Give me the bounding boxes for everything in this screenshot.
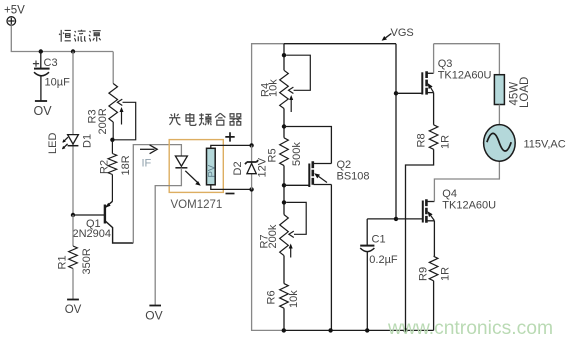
resistor R3 200R potentiometer <box>86 84 135 140</box>
svg-text:R8: R8 <box>415 133 427 147</box>
node +5V terminal <box>4 5 25 26</box>
resistor R8 1R <box>415 125 451 149</box>
wire Q1 collector to IF <box>133 145 181 243</box>
svg-text:TK12A60U: TK12A60U <box>438 70 492 82</box>
node plus label <box>225 132 234 141</box>
label constant current source (Chinese) <box>59 30 101 42</box>
svg-text:2N2904: 2N2904 <box>73 228 112 240</box>
ground OV (R1) <box>65 300 82 317</box>
svg-text:R5: R5 <box>267 148 279 162</box>
node junction D1 tap <box>71 49 75 53</box>
diode D1 LED <box>47 133 94 154</box>
svg-text:C1: C1 <box>372 234 386 246</box>
svg-text:VOM1271: VOM1271 <box>171 199 223 211</box>
node R2/R3 junction <box>110 138 114 142</box>
node Q1 base junction <box>71 213 75 217</box>
svg-text:R9: R9 <box>417 267 429 281</box>
svg-text:BS108: BS108 <box>337 171 370 183</box>
svg-text:200R: 200R <box>97 108 109 134</box>
resistor R2 18R <box>98 140 132 201</box>
svg-text:350R: 350R <box>81 248 93 274</box>
wire D1 branch <box>72 52 74 216</box>
svg-text:LOAD: LOAD <box>519 77 531 108</box>
node PV- junction <box>249 187 253 191</box>
svg-text:PV: PV <box>206 164 217 177</box>
svg-text:0.2µF: 0.2µF <box>369 254 398 266</box>
optocoupler U1 VOM1271 box <box>169 140 223 193</box>
wire left rail lower <box>252 189 284 330</box>
AC source 115V <box>484 125 566 162</box>
wire divider chain leads <box>283 44 285 331</box>
svg-text:1R: 1R <box>440 135 452 149</box>
wire R8 to bottom rail <box>406 149 434 330</box>
svg-text:Q3: Q3 <box>438 58 453 70</box>
watermark www.cntronics.com <box>387 318 553 339</box>
node rail C1 junction <box>365 328 369 332</box>
svg-text:Q4: Q4 <box>442 188 457 200</box>
svg-text:18R: 18R <box>120 155 132 175</box>
capacitor C1 0.2uF <box>360 219 398 331</box>
svg-text:+5V: +5V <box>4 5 25 17</box>
svg-text:OV: OV <box>65 304 82 316</box>
wire R4-R5 node to Q2 drain <box>284 127 331 164</box>
svg-text:10µF: 10µF <box>45 76 71 88</box>
wire Q3 drain up <box>433 44 435 74</box>
wire left rail upper <box>252 44 284 146</box>
node R5/gate junction <box>282 183 286 187</box>
node Q3 gate junction <box>394 91 398 95</box>
resistor R7 200k potentiometer <box>259 202 307 257</box>
svg-text:www.cntronics.com: www.cntronics.com <box>387 318 553 339</box>
resistor R6 10k <box>266 284 300 309</box>
resistor R5 500k <box>267 138 303 166</box>
wire PV positive lead <box>211 145 252 148</box>
node PV+ junction <box>249 143 253 147</box>
svg-text:1R: 1R <box>440 267 452 281</box>
capacitor C3 <box>33 52 70 102</box>
diode opto LED emitter <box>175 156 187 168</box>
svg-text:Q2: Q2 <box>337 159 352 171</box>
wire Q1 base <box>73 214 104 216</box>
transistor Q4 TK12A60U <box>396 188 496 223</box>
node junction C3 tap <box>39 49 43 53</box>
node R7 wiper junction <box>282 200 286 204</box>
svg-text:OV: OV <box>145 309 162 323</box>
svg-text:D2: D2 <box>232 161 244 175</box>
resistor R4 10k potentiometer <box>259 55 310 112</box>
load 45W <box>494 75 531 108</box>
svg-text:C3: C3 <box>44 57 58 69</box>
svg-text:VGS: VGS <box>391 27 414 39</box>
svg-text:500k: 500k <box>291 142 303 166</box>
svg-text:200k: 200k <box>267 224 279 248</box>
node VGS label arrow <box>382 27 414 41</box>
svg-text:LED: LED <box>47 133 59 154</box>
wire bottom rail black <box>284 329 434 331</box>
node rail R8 junction <box>403 328 407 332</box>
ground OV (C3) <box>34 101 53 118</box>
svg-text:OV: OV <box>34 104 53 118</box>
transistor Q1 2N2904 <box>73 201 134 243</box>
node rail R6 junction <box>282 328 286 332</box>
transistor Q3 TK12A60U <box>396 58 492 95</box>
wire Q4 drain up <box>434 161 499 201</box>
wire +5V rail <box>11 25 113 51</box>
wire VGS line <box>395 44 397 219</box>
svg-text:IF: IF <box>142 158 152 170</box>
wire Q3 source to R8 <box>433 93 435 125</box>
wire R3 top lead <box>112 52 114 84</box>
resistor R9 1R <box>417 256 451 330</box>
node R4/R5 junction <box>282 124 286 128</box>
diode D2 zener 12V <box>232 145 268 189</box>
svg-text:D1: D1 <box>81 134 93 148</box>
svg-text:R2: R2 <box>98 160 110 174</box>
label VOM1271 <box>171 199 223 211</box>
resistor R1 350R <box>57 215 94 300</box>
node Q4 gate / C1 junction <box>394 217 398 221</box>
wire load loop top <box>434 44 500 75</box>
wire PV negative lead <box>211 185 252 190</box>
svg-text:TK12A60U: TK12A60U <box>442 199 496 211</box>
node rail Q2 junction <box>328 328 332 332</box>
ground OV (opto) <box>145 306 162 323</box>
wire Q4 source to R9 <box>433 221 436 256</box>
svg-text:115V,AC: 115V,AC <box>524 138 566 150</box>
wire opto LED cathode to OV <box>155 168 181 306</box>
svg-text:R6: R6 <box>266 290 278 304</box>
wire Q2 source to rail <box>330 185 332 331</box>
photovoltaic cell PV <box>206 148 217 185</box>
wire load to AC <box>498 105 500 126</box>
label photocoupler (Chinese) <box>169 113 241 125</box>
node minus label <box>226 193 235 195</box>
node R4 wiper junction <box>282 53 286 57</box>
svg-text:10k: 10k <box>288 290 300 308</box>
node IF arrow <box>140 145 157 170</box>
svg-text:R1: R1 <box>57 255 69 269</box>
opto coupling arrow <box>185 171 201 186</box>
wire top rail black <box>284 43 396 45</box>
transistor Q2 BS108 <box>284 159 370 187</box>
svg-text:10k: 10k <box>267 79 279 97</box>
